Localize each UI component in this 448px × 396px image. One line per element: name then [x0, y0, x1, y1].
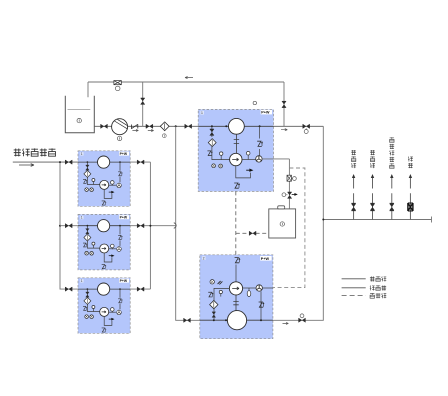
bladder tank: [229, 118, 245, 134]
branch valve: [210, 129, 214, 135]
tank number 1: [77, 118, 81, 122]
riser 1 valve: [351, 203, 355, 211]
node: [213, 319, 215, 321]
wire: foam tank branch (dashed): [236, 232, 269, 234]
tank number: [280, 222, 284, 226]
outlet valve of top box: [303, 124, 310, 128]
flow arrow: [281, 129, 287, 131]
wire: tank refill header: [88, 81, 284, 83]
foam tank: [269, 209, 296, 238]
skid 2 inlet valve: [65, 224, 72, 228]
P+W label: [261, 110, 272, 115]
flanged joint: [234, 134, 239, 153]
wire: eductor down leg: [260, 291, 262, 320]
check valve: [131, 124, 137, 128]
down leg hose: [259, 302, 265, 307]
flow arrow after check valve: [132, 129, 138, 131]
bottom outlet valve: [299, 318, 306, 322]
riser 2: [370, 150, 375, 219]
wire: refill header drop right: [283, 82, 285, 126]
valve on riser: [141, 98, 145, 104]
needle valve stub: [220, 293, 222, 297]
suction valve: [101, 124, 108, 128]
node: [225, 319, 227, 321]
eductor: [256, 156, 262, 162]
foam pump: [229, 282, 242, 295]
wire: skid 1 outlet: [130, 161, 150, 163]
riser 1 arrow: [352, 174, 355, 178]
node: [260, 319, 262, 321]
riser 3 arrow: [390, 174, 393, 178]
wire: left supply bus: [60, 162, 78, 289]
wire: riser 4: [409, 176, 411, 220]
node: [149, 225, 151, 227]
wire: foam inlet drop: [235, 265, 237, 282]
wire: pump discharge to eductor: [243, 287, 256, 289]
skid 1 outlet valve: [137, 160, 144, 164]
riser 2 arrow: [371, 174, 374, 178]
wire: water through pipe: [200, 319, 273, 321]
wire: recirculation branch: [259, 126, 261, 155]
svg-text:P+W: P+W: [261, 111, 270, 115]
node: [225, 125, 227, 127]
header end tick: [431, 217, 433, 223]
skid 1 inlet valve: [65, 160, 72, 164]
strainer on main line: [160, 122, 169, 131]
riser 4 arrow: [409, 174, 412, 178]
skid 3 outlet valve: [137, 287, 144, 291]
label foam generator: [390, 137, 394, 142]
riser 3 valve: [390, 203, 394, 211]
wire: riser 1: [353, 176, 355, 220]
wire: foam feed (dashed): [235, 191, 237, 254]
riser 4 valve (solid): [408, 203, 413, 211]
flow arrow: [283, 322, 289, 324]
wire: refill drop into tank: [87, 82, 89, 97]
pump gauge: [247, 155, 249, 160]
hose connection: [207, 151, 212, 156]
enclosure tag: [200, 111, 204, 115]
P+W label: [260, 256, 271, 261]
wire: riser to refill header: [142, 82, 144, 126]
legend water line: [342, 287, 366, 289]
wire: riser 3: [391, 176, 393, 220]
svg-text:P+W: P+W: [261, 257, 270, 261]
wire: supply line: [13, 161, 78, 163]
fill valve: [287, 175, 291, 181]
wire: skid 3 outlet: [130, 288, 150, 290]
strainer number: [162, 134, 166, 138]
valve on refill header: [114, 81, 121, 85]
legend label foam: [370, 293, 374, 298]
node: header tee: [322, 219, 324, 221]
node: [259, 125, 261, 127]
foam pump: [230, 153, 242, 165]
foam skid unit 1: [78, 151, 130, 207]
branch valve: [249, 231, 256, 235]
wire: fire water drop to bottom skid: [176, 126, 200, 320]
main fire pump: [112, 119, 128, 135]
skid 3 inlet valve: [65, 287, 72, 291]
legend label water: [370, 285, 375, 290]
water level line: [68, 109, 91, 111]
wire: riser 2: [372, 176, 374, 220]
wire: main suction/discharge line: [94, 125, 323, 127]
gauge valve: [218, 281, 223, 284]
recirculation hose: [257, 141, 263, 146]
drain valve on riser: [288, 192, 292, 198]
drain arrow: [292, 193, 298, 196]
enclosure tag: [202, 256, 206, 260]
legend foam line (dashed): [342, 295, 366, 297]
pipe break symbol: [174, 223, 176, 229]
label fire hydrant: [370, 150, 375, 155]
wire: tank fill riser: [288, 159, 290, 209]
needle valve stub: [220, 155, 222, 159]
bottom outlet actuator: [301, 317, 303, 320]
discharge valve: [146, 124, 153, 128]
svg-text:1: 1: [201, 111, 203, 115]
strainer valve: [212, 312, 216, 317]
drain valve actuator: [286, 194, 287, 196]
label fire hydrant: [351, 150, 356, 155]
proportioner enclosure: [198, 109, 273, 191]
tank cap: [278, 206, 285, 209]
wire: through pipe: [198, 125, 273, 127]
bladder tank: [227, 311, 246, 330]
eductor: [256, 285, 262, 291]
sight glass: [248, 288, 250, 291]
hose connection: [208, 292, 213, 297]
valve at bottom skid inlet: [184, 318, 191, 322]
wire: pump discharge: [242, 159, 256, 161]
suction strainer: [208, 139, 216, 147]
wire: right collect bus: [149, 162, 151, 289]
drain arrow: [246, 169, 253, 172]
riser 3: [389, 137, 394, 219]
legend label solution: [370, 276, 375, 281]
pump number 2: [117, 136, 121, 140]
wire: distribution header: [323, 219, 431, 221]
label: connect fire water supply: [14, 148, 56, 156]
suction gauge 1: [212, 164, 216, 168]
proportioner enclosure: [200, 255, 273, 339]
wire: skid 2 outlet: [130, 225, 176, 227]
fill valve actuator: [291, 177, 292, 179]
riser 4: [408, 157, 413, 220]
riser 1: [351, 150, 356, 219]
label sprinkler: [408, 157, 413, 162]
wire: solution main drop: [273, 126, 323, 320]
legend solution line: [342, 278, 366, 280]
supply flow arrow: [19, 164, 34, 167]
svg-text:2: 2: [203, 256, 205, 260]
valve before proportioner: [185, 124, 192, 128]
wire: pump drain: [236, 166, 251, 178]
wire: skid 2 inlet: [60, 225, 78, 227]
gauge cross: [210, 280, 214, 284]
node: [211, 125, 213, 127]
wire: foam return (dashed): [273, 168, 305, 288]
riser 2 valve: [370, 203, 374, 211]
vent circle above enclosure: [253, 101, 256, 104]
node: main line tee: [175, 125, 177, 127]
wire: eductor to box edge: [263, 287, 273, 289]
suction gauge 2: [219, 164, 223, 168]
flow arrow (left) on refill header: [185, 77, 193, 79]
actuator circle of refill valve: [115, 86, 120, 91]
flow arrow after discharge valve: [148, 130, 154, 132]
flanged joint: [233, 295, 238, 311]
skid 2 outlet valve: [137, 224, 144, 228]
wire: suction branch: [212, 126, 230, 159]
foam skid unit 2: [78, 214, 130, 270]
valve on right drop: [282, 101, 286, 107]
drain hose: [234, 183, 240, 188]
suction strainer: [210, 300, 218, 308]
wire: pump suction left: [214, 288, 229, 320]
foam skid unit 3: [78, 278, 130, 334]
inlet hose: [235, 258, 241, 263]
node: [59, 225, 61, 227]
node: [59, 161, 61, 163]
outlet valve actuator: [305, 128, 307, 129]
wire: discharge to foam tank: [262, 158, 289, 160]
water tank: [65, 96, 94, 133]
